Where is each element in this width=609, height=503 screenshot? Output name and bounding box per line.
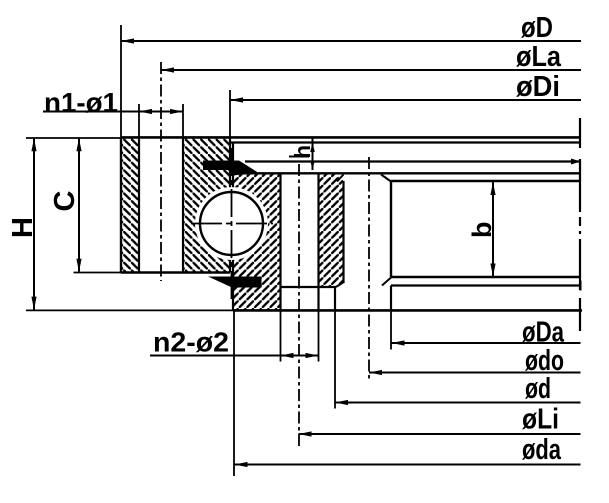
block2 corner chamfer bbox=[337, 175, 344, 182]
dim n1-o1 line bbox=[43, 111, 183, 113]
svg-text:C: C bbox=[49, 191, 81, 212]
ball horizontal centerline bbox=[191, 223, 273, 225]
svg-text:H: H bbox=[7, 217, 39, 238]
dim oda line bbox=[235, 464, 581, 466]
gear tooth mark top bbox=[571, 159, 581, 165]
dim oDi line bbox=[230, 99, 581, 101]
dim oDi arrow bbox=[230, 97, 243, 102]
lower land end tick bbox=[580, 281, 582, 291]
n2 hole left edge bbox=[279, 174, 281, 310]
dim oDa line bbox=[392, 342, 581, 344]
n2 hole right edge bbox=[317, 174, 319, 310]
dim n1-o1 ext left bbox=[138, 104, 140, 137]
top face extension line left bbox=[26, 137, 121, 139]
inner ring left edge lower bbox=[232, 260, 234, 310]
dim C arrow bottom bbox=[76, 259, 81, 272]
svg-text:øDi: øDi bbox=[516, 71, 560, 103]
inner ring bottom face bbox=[233, 309, 582, 312]
gear box top chamfer bbox=[381, 175, 391, 182]
dim oLa line bbox=[161, 69, 581, 71]
gear box bottom chamfer bbox=[382, 278, 391, 286]
svg-text:øLi: øLi bbox=[522, 404, 559, 436]
gear box left lower edge bbox=[390, 286, 392, 311]
block2 corner white bbox=[337, 175, 344, 182]
dim b arrow top bbox=[490, 182, 495, 195]
bottom extension line left for H bbox=[26, 309, 233, 311]
dim n2-o2 arrow right bbox=[306, 353, 319, 358]
dim oDi ext bbox=[229, 90, 231, 137]
inner ring bore edge dot bbox=[579, 231, 581, 234]
bottom seal (black wedge) bbox=[208, 277, 262, 288]
n2 hole right ext bbox=[318, 310, 320, 361]
bottom groove chamfer bbox=[336, 282, 345, 288]
dim b arrow bottom bbox=[490, 264, 495, 277]
dim h arrow up bbox=[310, 143, 315, 152]
inner ring bore edge segment3 bbox=[579, 239, 581, 290]
ball vertical centerline bbox=[231, 148, 233, 303]
bottom groove line bbox=[281, 286, 337, 288]
inner ring bore edge segment1 bbox=[579, 118, 581, 148]
inner ring recessed top face bbox=[245, 160, 580, 162]
dim H line bbox=[33, 138, 35, 310]
outer ring bottom face bbox=[121, 271, 230, 273]
dim h arrow down bbox=[310, 161, 315, 170]
n1 hole left edge bbox=[138, 137, 140, 272]
dim b line bbox=[492, 182, 494, 277]
dim oDa arrow bbox=[392, 340, 405, 345]
dim oda ext bbox=[233, 310, 235, 476]
dim oLi arrow bbox=[299, 431, 312, 436]
dim H arrow bottom bbox=[31, 297, 36, 310]
gear box top bbox=[391, 180, 580, 182]
dim oda arrow bbox=[235, 462, 248, 467]
inner ring bore edge segment4 bbox=[579, 298, 581, 331]
svg-text:n2-ø2: n2-ø2 bbox=[153, 327, 229, 358]
top face line bbox=[121, 136, 580, 139]
n1 hole right edge bbox=[182, 137, 184, 272]
bottom step ext for d bbox=[334, 310, 336, 408]
oil hole centerline (do) bbox=[368, 157, 370, 379]
dim H arrow top bbox=[31, 138, 36, 151]
outer ring right edge lower bbox=[229, 260, 231, 273]
outer ring body hatch bbox=[183, 137, 230, 272]
dim oLi line bbox=[299, 433, 581, 435]
Da extension bbox=[390, 310, 392, 349]
dim oD ext bbox=[120, 25, 122, 137]
gear box bottom bbox=[391, 276, 580, 278]
dim odo arrow bbox=[369, 370, 382, 375]
svg-text:øDa: øDa bbox=[522, 317, 565, 349]
outer ring left edge bbox=[120, 137, 122, 272]
dim od line bbox=[335, 402, 581, 404]
dim oD arrow bbox=[121, 38, 134, 43]
svg-text:øda: øda bbox=[522, 434, 562, 466]
outer ring left flange hatch bbox=[121, 137, 139, 272]
dim n2-o2 line bbox=[150, 355, 319, 357]
top seal (black wedge) bbox=[203, 161, 258, 176]
bottom step edge bbox=[334, 287, 336, 310]
inner ring block near ball hatch bbox=[233, 174, 281, 310]
dim od arrow bbox=[335, 400, 348, 405]
raceway gap (white) bbox=[195, 187, 268, 260]
inner ring left edge upper bbox=[232, 143, 234, 188]
n2 hole centerline bbox=[298, 164, 300, 446]
dim odo line bbox=[369, 372, 581, 374]
dim n1-o1 arrow left bbox=[139, 109, 152, 114]
dim oLa arrow bbox=[161, 67, 174, 72]
svg-text:b: b bbox=[467, 222, 497, 239]
gear box left edge bbox=[390, 181, 392, 277]
dim C arrow top bbox=[76, 138, 81, 151]
dim C line bbox=[78, 138, 80, 272]
inner ring plate bottom line bbox=[231, 141, 580, 143]
dim h label bar bbox=[289, 156, 309, 158]
outer ring right edge upper bbox=[229, 137, 231, 187]
inner ring bore edge segment2 bbox=[579, 159, 581, 212]
dim n1-o1 ext right bbox=[182, 104, 184, 137]
outer ring bottom extension for C bbox=[74, 272, 122, 274]
svg-text:n1-ø1: n1-ø1 bbox=[44, 87, 118, 118]
block2 right edge bbox=[342, 181, 344, 282]
svg-text:øLa: øLa bbox=[516, 41, 562, 73]
dim n2-o2 arrow left bbox=[281, 353, 294, 358]
dim n1-o1 arrow right bbox=[170, 109, 183, 114]
dim oD line bbox=[121, 40, 581, 42]
ball bbox=[200, 192, 263, 255]
groove floor line bbox=[233, 172, 580, 174]
svg-text:øD: øD bbox=[521, 12, 553, 44]
dim h line bbox=[312, 137, 314, 170]
inner ring bore edge dash bbox=[579, 217, 581, 226]
svg-text:ød: ød bbox=[525, 373, 551, 405]
lower land line bbox=[391, 284, 580, 286]
n1 hole centerline bbox=[160, 62, 162, 281]
inner ring block2 hatch bbox=[319, 174, 344, 287]
n2 hole left ext bbox=[280, 310, 282, 361]
